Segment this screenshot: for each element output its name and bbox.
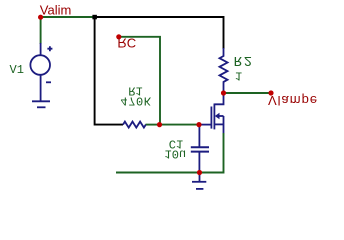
svg-text:R2: R2 [234,52,254,68]
svg-text:1: 1 [235,68,242,82]
svg-text:RC: RC [117,36,136,51]
svg-text:Valim: Valim [40,2,72,17]
svg-text:10u: 10u [165,147,187,161]
svg-text:Vlampe: Vlampe [268,93,318,108]
svg-text:470K: 470K [120,93,151,107]
svg-text:V1: V1 [10,63,24,77]
